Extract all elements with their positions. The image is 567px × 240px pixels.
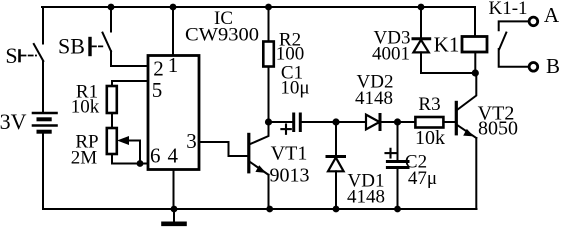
node K1 bottom [472, 69, 479, 76]
node VD1 rail [333, 206, 340, 213]
node collector C1 [265, 118, 272, 125]
potentiometer RP wiper arrow [117, 136, 140, 164]
label C2 plus [386, 149, 396, 158]
node SB-top [108, 4, 115, 11]
resistor R3 with leads [398, 117, 455, 128]
svg-text:B: B [546, 54, 560, 78]
switch S blade [34, 44, 44, 61]
node VD3 top [418, 4, 425, 11]
wire SB column from top rail [110, 7, 112, 32]
svg-text:K1-1: K1-1 [488, 0, 527, 19]
resistor R1 body [107, 86, 117, 113]
node VT1 emitter rail [266, 206, 273, 213]
svg-text:3: 3 [186, 129, 197, 153]
node R2 top [265, 4, 272, 11]
wire switch S to battery [42, 61, 44, 112]
svg-text:4148: 4148 [347, 187, 385, 208]
svg-text:1: 1 [168, 53, 179, 77]
svg-text:A: A [544, 3, 560, 27]
svg-text:VT1: VT1 [271, 143, 308, 165]
wire IC pin 1 to top rail [172, 7, 174, 56]
svg-text:5: 5 [152, 78, 163, 102]
switch SB actuator [90, 39, 104, 55]
transistor Q1 VT1 9013 [249, 122, 269, 209]
resistor R2 with leads [263, 7, 274, 122]
svg-text:9013: 9013 [270, 165, 310, 187]
wire left column upper (rail to switch S) [42, 7, 44, 44]
relay coil K1 [462, 7, 487, 73]
svg-text:SB: SB [58, 34, 85, 59]
label C1 plus [281, 125, 290, 134]
svg-text:R3: R3 [418, 94, 440, 115]
svg-text:8050: 8050 [478, 118, 518, 140]
node IC pin1 top [170, 4, 177, 11]
node C1-VD2-VD1 [332, 118, 339, 125]
wire battery to bottom rail [42, 133, 44, 209]
relay contact K1-1 [499, 17, 538, 71]
wire RP bottom to IC pin 6 [112, 154, 147, 164]
node ground rail [171, 206, 178, 213]
svg-text:10k: 10k [71, 97, 100, 118]
wire VD3 bottom to K1 bottom junction [421, 72, 475, 74]
diode VD3 4001 [413, 7, 430, 73]
potentiometer RP body [107, 128, 117, 154]
svg-text:2M: 2M [71, 148, 98, 169]
op-amp U1 IC CW9300 box [148, 56, 199, 170]
svg-text:6: 6 [150, 144, 161, 168]
svg-text:10μ: 10μ [280, 78, 309, 99]
svg-text:10k: 10k [415, 127, 445, 149]
wire IC pin 5 to R1 top [112, 81, 147, 86]
wire IC pin 4 to bottom rail [173, 170, 175, 210]
svg-text:3V: 3V [0, 109, 27, 134]
svg-text:4001: 4001 [372, 44, 410, 65]
svg-text:CW9300: CW9300 [185, 25, 259, 46]
node C2 rail [394, 206, 401, 213]
diode VD1 4148 [327, 122, 345, 209]
svg-text:100: 100 [276, 44, 305, 65]
wire SB to IC pin 2 [111, 51, 148, 66]
node RP wiper join [137, 160, 144, 167]
svg-text:47μ: 47μ [408, 168, 437, 189]
ground [164, 209, 185, 224]
capacitor C1 [269, 114, 337, 131]
svg-text:S: S [5, 43, 17, 68]
wire top rail [42, 6, 475, 8]
svg-text:4148: 4148 [355, 88, 393, 109]
svg-text:2: 2 [153, 57, 164, 81]
wire R1 to RP [111, 113, 113, 128]
switch SB blade [103, 33, 112, 52]
diode VD2 4148 [336, 115, 398, 130]
node VD2-C2-R3 [394, 118, 401, 125]
svg-text:K1: K1 [434, 33, 460, 57]
battery B1 3V plates [33, 113, 57, 132]
capacitor C2 47u [387, 122, 408, 209]
switch S actuator [20, 51, 37, 62]
wire IC pin 3 to VT1 base [199, 142, 248, 156]
svg-text:4: 4 [168, 144, 179, 168]
wire bottom rail [44, 208, 477, 210]
transistor Q2 VT2 8050 [456, 73, 476, 209]
